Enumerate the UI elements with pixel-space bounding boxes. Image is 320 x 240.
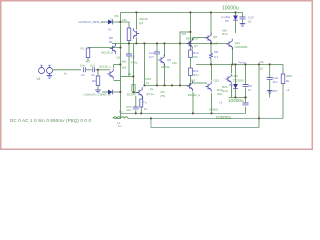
- wire top cap to ground: [242, 19, 244, 24]
- capacitor C3: [126, 54, 132, 56]
- wire comp cap lower: [156, 55, 158, 86]
- wire lower cap column: [245, 65, 247, 85]
- svg-text:9b: 9b: [109, 40, 113, 44]
- svg-text:R2: R2: [92, 79, 96, 83]
- wire lower diode feed: [102, 91, 108, 93]
- wire Q9 collector wire: [193, 82, 207, 84]
- resistor R2: [96, 76, 100, 86]
- wire R5 top link: [121, 22, 130, 28]
- wire Q9 emitter down: [192, 92, 194, 114]
- svg-text:Q9: Q9: [191, 79, 195, 83]
- resistor RL load: [281, 74, 285, 84]
- svg-text:10000u: 10000u: [222, 6, 239, 12]
- svg-text:0.1: 0.1: [214, 55, 219, 59]
- svg-text:1u: 1u: [118, 124, 122, 128]
- wire comp cap column: [156, 44, 158, 53]
- ground under source: [47, 74, 53, 79]
- wire ground tap column: [258, 65, 260, 128]
- wire R5 bottom: [128, 41, 130, 44]
- wire Q8 collector drop: [210, 13, 212, 36]
- wire Q4 emitter to rail: [136, 38, 138, 44]
- svg-text:46?: 46?: [273, 89, 278, 93]
- wire Q6 emitter down: [142, 96, 144, 99]
- wire inductor tap: [114, 114, 121, 119]
- transistor Q4: [133, 28, 139, 39]
- svg-text:R13: R13: [222, 32, 228, 36]
- diode X2: [108, 90, 113, 95]
- junction dots: [97, 12, 271, 120]
- svg-text:4R8: 4R8: [286, 74, 292, 78]
- svg-text:10n: 10n: [273, 80, 278, 84]
- capacitor C12 big: [243, 103, 249, 105]
- svg-text:1k: 1k: [144, 107, 148, 111]
- wire Q4 collector drop: [136, 13, 138, 30]
- svg-text:Q8: Q8: [213, 35, 217, 39]
- svg-text:1k5: 1k5: [122, 66, 127, 70]
- svg-text:21k: 21k: [127, 108, 132, 112]
- svg-text:47k: 47k: [193, 55, 198, 59]
- svg-text:hu3l: hu3l: [212, 42, 218, 46]
- wire big cap drop: [245, 98, 247, 103]
- svg-text:A1015_b: A1015_b: [101, 51, 113, 55]
- svg-text:Q10: Q10: [214, 79, 220, 83]
- wire long mid rail: [112, 43, 228, 45]
- svg-text:NJW3281: NJW3281: [235, 45, 249, 49]
- svg-text:2N5401: 2N5401: [209, 108, 219, 112]
- wire mirror column upper: [190, 13, 192, 51]
- svg-text:D6: D6: [229, 83, 233, 87]
- svg-text:2k: 2k: [128, 72, 132, 76]
- wire Q7 collector to Q8 base: [193, 37, 208, 39]
- wire VAS emitter: [164, 64, 166, 86]
- svg-text:10: 10: [248, 20, 252, 24]
- svg-text:Q5: Q5: [167, 58, 171, 62]
- wire VAS collector: [164, 44, 166, 57]
- wire Q7 body stub: [192, 38, 194, 41]
- svg-text:RL: RL: [286, 79, 290, 83]
- svg-text:47u: 47u: [142, 101, 147, 105]
- diode D5: [233, 16, 238, 21]
- wire mid column a: [133, 44, 135, 93]
- wire bias diode drop: [235, 13, 237, 16]
- capacitor C8: [243, 85, 249, 87]
- capacitor C10 zobel: [267, 78, 273, 80]
- wire diode X1 cathode: [113, 21, 121, 23]
- ground input: [95, 90, 101, 93]
- svg-text:(P1): (P1): [193, 73, 199, 77]
- svg-text:N30: N30: [233, 74, 239, 78]
- svg-text:15k: 15k: [122, 18, 127, 22]
- resistor R11: [189, 68, 193, 76]
- transistor Q10 lower output: [205, 81, 211, 92]
- svg-text:A1015_c: A1015_c: [99, 65, 111, 69]
- wire mirror tap: [180, 31, 191, 33]
- resistor R1: [86, 48, 90, 58]
- wire Q11 emitter: [232, 47, 234, 64]
- svg-text:C2: C2: [91, 73, 95, 77]
- wire feedback cap bottom: [135, 110, 137, 114]
- wire RE1 to rail: [210, 59, 212, 65]
- ground zobel: [267, 91, 273, 94]
- wire base node down to R2: [97, 70, 99, 76]
- capacitor C1: [84, 67, 86, 72]
- resistor R17 green box: [132, 85, 135, 92]
- svg-text:1n: 1n: [64, 72, 68, 76]
- wire C3 column bottom: [128, 56, 130, 77]
- wire Q12 collector: [231, 65, 233, 74]
- svg-text:10: 10: [260, 67, 264, 71]
- wire negative rail: [229, 97, 248, 99]
- svg-text:BD140_a: BD140_a: [188, 93, 200, 97]
- transistor Q7 driver: [186, 38, 192, 49]
- transistor Q6: [136, 87, 142, 98]
- svg-text:+2: +2: [286, 88, 290, 92]
- svg-text:BC547: BC547: [127, 93, 137, 97]
- svg-text:a970a: a970a: [161, 65, 170, 69]
- wire mirror link: [121, 76, 134, 78]
- wire input bias resistor bottom stub: [87, 58, 89, 62]
- wire source to cap: [54, 69, 81, 71]
- wire lower diode column top: [235, 65, 237, 85]
- voltage source V2: [47, 65, 55, 73]
- svg-text:1k: 1k: [150, 87, 154, 91]
- resistor RE1 zigzag: [210, 53, 213, 58]
- wire Q12 emitter: [231, 85, 233, 98]
- svg-text:A1015GtwT_DB48_db: A1015GtwT_DB48_db: [78, 21, 104, 24]
- wire top cap corner: [242, 13, 244, 18]
- wire cap to base node: [96, 69, 111, 71]
- wire mirror res gap2: [190, 76, 192, 86]
- svg-text:10000u: 10000u: [228, 98, 244, 103]
- voltage source V1: [39, 65, 45, 73]
- svg-text:+1: +1: [219, 101, 223, 105]
- svg-text:C3: C3: [131, 55, 135, 59]
- svg-text:M3: M3: [214, 50, 218, 54]
- transistor Q9 lower driver: [187, 81, 193, 92]
- diode X1: [108, 20, 113, 25]
- wire output mid rail: [196, 64, 283, 66]
- capacitor C2: [93, 67, 95, 72]
- svg-text:V4: V4: [37, 77, 41, 81]
- wire feedback res bottom: [140, 107, 142, 114]
- svg-text:2u2: 2u2: [90, 64, 95, 68]
- transistor Q11 output: [226, 39, 232, 50]
- wire load column: [282, 65, 284, 75]
- svg-text:+v00dGwTv_L2B48X_dP: +v00dGwTv_L2B48X_dP: [83, 94, 111, 97]
- wire tail vertical: [120, 44, 122, 114]
- wire lower cap stub: [245, 88, 247, 98]
- wire bias diode to base: [235, 21, 237, 34]
- resistor R6: [140, 99, 143, 107]
- svg-text:TTC5200: TTC5200: [233, 79, 245, 83]
- svg-text:Pr(w): Pr(w): [239, 60, 246, 64]
- wire Q6 base link: [134, 92, 139, 94]
- svg-text:X1: X1: [108, 28, 112, 32]
- svg-text:17b: 17b: [182, 32, 187, 36]
- svg-text:Q1: Q1: [117, 56, 121, 60]
- resistor R5: [127, 28, 131, 41]
- transistor Q5 VAS: [158, 55, 164, 66]
- svg-text:(75): (75): [160, 94, 165, 98]
- svg-text:Q6 1u: Q6 1u: [146, 92, 155, 96]
- svg-text:470p: 470p: [131, 61, 138, 65]
- capacitor C5 comp: [154, 52, 160, 54]
- wire Q10 emitter down: [211, 93, 213, 114]
- wire lower mid rail: [145, 85, 190, 87]
- wire R2 to ground: [97, 86, 99, 91]
- wire feedback cap column: [135, 96, 137, 107]
- inductor L1: [113, 117, 128, 119]
- transistor Q8: [205, 33, 211, 44]
- capacitor C13: [240, 17, 246, 19]
- transistor Q1: [110, 43, 116, 54]
- svg-text:R9: R9: [115, 14, 119, 18]
- page background: [0, 0, 313, 150]
- transistor Q12 power PNP: [225, 74, 231, 85]
- resistor R10: [189, 50, 193, 58]
- wire Q2 emitter link: [114, 64, 121, 66]
- wire post inductor rail: [128, 118, 283, 120]
- wire output node rail: [121, 113, 246, 115]
- wire Q2 collector link: [114, 80, 121, 82]
- svg-text:BD139_a: BD139_a: [186, 37, 198, 41]
- svg-text:D5: D5: [225, 19, 229, 23]
- transistor Q2: [107, 65, 113, 80]
- svg-text:(b.b): (b.b): [222, 89, 228, 93]
- svg-text:4k5: 4k5: [122, 60, 127, 64]
- wire big cap to out rail: [245, 107, 247, 114]
- wire ground return rail: [151, 119, 259, 128]
- svg-text:1k: 1k: [146, 81, 150, 85]
- diode D6: [233, 84, 238, 89]
- wire zobel column: [269, 65, 271, 78]
- wire lower diode cathode: [113, 91, 121, 93]
- svg-text:10u: 10u: [259, 60, 264, 64]
- svg-text:Q4: Q4: [139, 21, 143, 25]
- svg-text:1u: 1u: [119, 109, 123, 113]
- wire Q10 collector up: [211, 65, 213, 81]
- ground top right: [240, 24, 246, 27]
- wire C3 column top: [128, 44, 130, 55]
- svg-text:R1: R1: [81, 47, 85, 51]
- svg-text:1k: 1k: [110, 18, 114, 22]
- wire top positive rail: [121, 12, 243, 14]
- capacitor C4 electrolytic: [133, 107, 139, 109]
- svg-text:k=7: k=7: [149, 55, 154, 59]
- svg-text:10u: 10u: [80, 64, 85, 68]
- wire input bias resistor top: [88, 47, 121, 49]
- svg-text:4k7: 4k7: [86, 60, 91, 64]
- wire degeneration column: [144, 44, 146, 86]
- svg-text:10000u: 10000u: [216, 115, 232, 120]
- wire mirror res gap1: [190, 58, 192, 69]
- svg-text:Q7: Q7: [194, 44, 198, 48]
- svg-text:1u: 1u: [248, 88, 252, 92]
- wire zobel cap bottom: [269, 80, 271, 98]
- wire V+ drop left: [120, 13, 122, 44]
- svg-text:21k: 21k: [172, 61, 177, 65]
- wire diode X1 feed: [102, 21, 108, 23]
- wire Q8 emitter: [210, 42, 212, 54]
- svg-text:DC 0 AC 1 0 Sin 0 650mv (FBQ): DC 0 AC 1 0 Sin 0 650mv (FBQ) 0 0 0: [10, 118, 91, 123]
- wire load bottom: [282, 84, 284, 119]
- outer red frame: [1, 1, 313, 150]
- wire between caps: [86, 69, 92, 71]
- wire lower diode to rail: [235, 89, 237, 98]
- wire cascode column: [179, 32, 181, 86]
- svg-text:C1: C1: [81, 73, 85, 77]
